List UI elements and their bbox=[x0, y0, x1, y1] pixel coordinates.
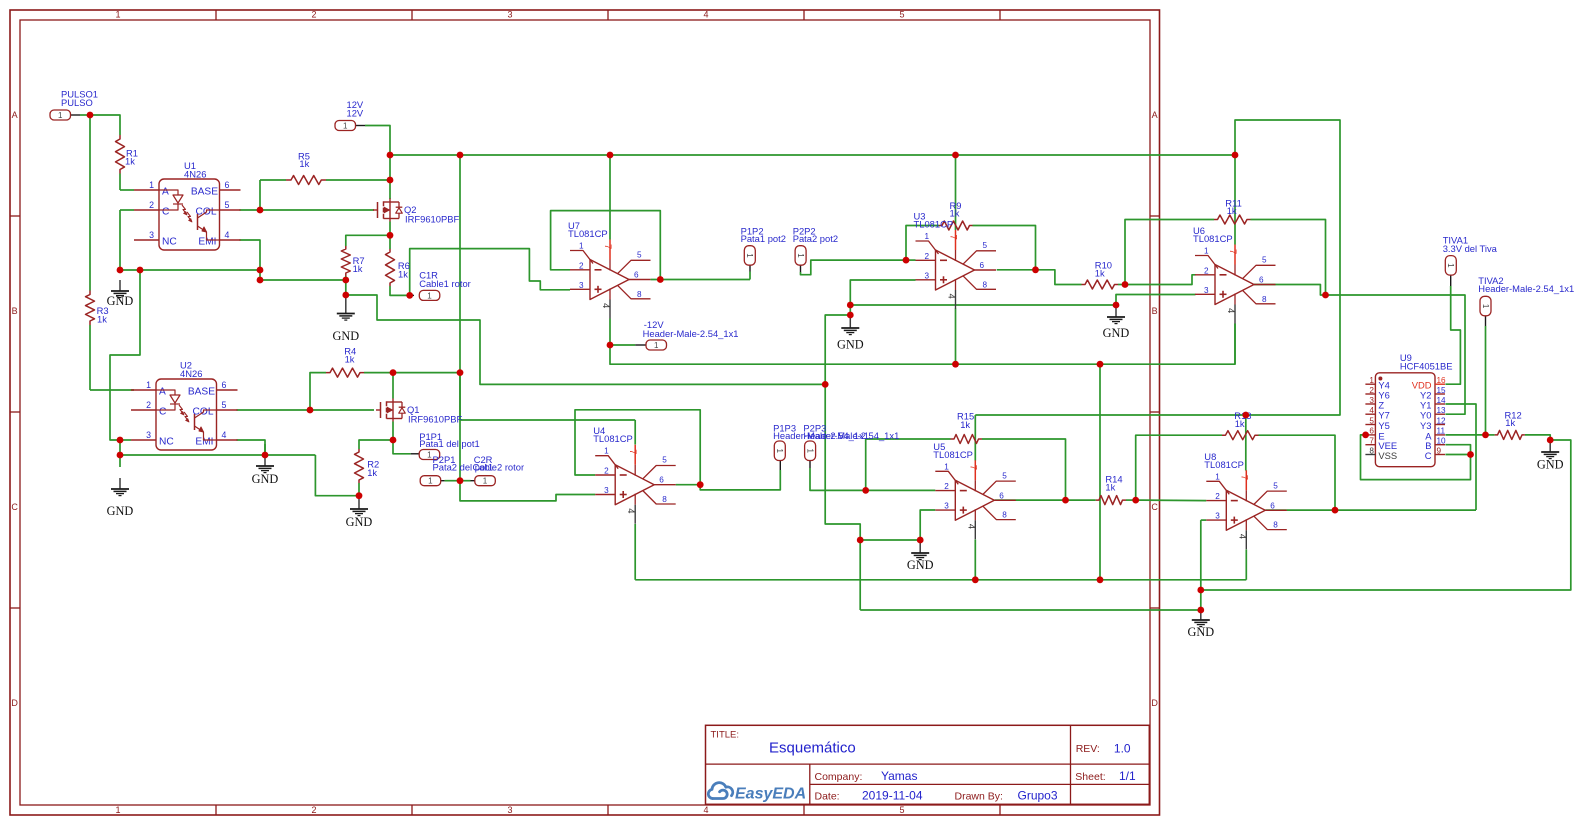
svg-text:7: 7 bbox=[602, 244, 613, 249]
svg-text:Cable2 rotor: Cable2 rotor bbox=[473, 462, 525, 473]
svg-text:TITLE:: TITLE: bbox=[711, 730, 740, 741]
svg-text:Cable1 rotor: Cable1 rotor bbox=[419, 278, 471, 289]
svg-text:8: 8 bbox=[1262, 295, 1267, 304]
svg-text:2: 2 bbox=[1215, 492, 1220, 501]
svg-text:5: 5 bbox=[1273, 481, 1278, 490]
svg-text:Grupo3: Grupo3 bbox=[1018, 788, 1058, 802]
svg-text:EasyEDA: EasyEDA bbox=[735, 786, 806, 803]
svg-text:1: 1 bbox=[775, 449, 784, 454]
svg-text:1/1: 1/1 bbox=[1119, 769, 1136, 783]
svg-text:Header-Male-2.54_1x1: Header-Male-2.54_1x1 bbox=[1478, 283, 1574, 294]
svg-text:5: 5 bbox=[899, 10, 904, 20]
svg-text:1: 1 bbox=[343, 122, 348, 131]
svg-text:11: 11 bbox=[1437, 427, 1446, 436]
svg-text:3: 3 bbox=[924, 271, 929, 280]
svg-text:4: 4 bbox=[225, 230, 230, 240]
svg-text:GND: GND bbox=[1103, 326, 1130, 340]
svg-text:2: 2 bbox=[311, 805, 316, 815]
svg-text:TL081CP: TL081CP bbox=[914, 219, 954, 230]
svg-text:1k: 1k bbox=[299, 158, 309, 169]
svg-text:3: 3 bbox=[944, 502, 949, 511]
svg-text:1k: 1k bbox=[950, 208, 960, 219]
svg-text:5: 5 bbox=[1262, 256, 1267, 265]
svg-text:1k: 1k bbox=[1105, 482, 1115, 493]
svg-text:7: 7 bbox=[1227, 249, 1238, 254]
svg-text:13: 13 bbox=[1437, 406, 1447, 415]
svg-text:Y5: Y5 bbox=[1378, 420, 1389, 431]
svg-text:3: 3 bbox=[579, 281, 584, 290]
svg-text:4: 4 bbox=[600, 303, 611, 308]
svg-text:5: 5 bbox=[637, 251, 642, 260]
svg-text:6: 6 bbox=[222, 380, 227, 390]
svg-text:4N26: 4N26 bbox=[184, 169, 206, 180]
svg-text:5: 5 bbox=[1002, 471, 1007, 480]
svg-text:3: 3 bbox=[1204, 286, 1209, 295]
svg-text:2: 2 bbox=[1369, 386, 1374, 395]
svg-text:A: A bbox=[1152, 110, 1158, 120]
svg-text:GND: GND bbox=[1187, 625, 1214, 639]
svg-text:7: 7 bbox=[1238, 475, 1249, 480]
svg-text:3.3V del Tiva: 3.3V del Tiva bbox=[1443, 243, 1498, 254]
svg-text:1k: 1k bbox=[367, 467, 377, 478]
svg-text:12: 12 bbox=[1437, 416, 1447, 425]
svg-text:16: 16 bbox=[1437, 376, 1447, 385]
svg-text:6: 6 bbox=[1270, 501, 1275, 510]
svg-text:4: 4 bbox=[1225, 308, 1236, 313]
svg-text:D: D bbox=[11, 698, 18, 708]
svg-text:1: 1 bbox=[805, 449, 814, 454]
svg-text:7: 7 bbox=[1369, 437, 1374, 446]
svg-text:1k: 1k bbox=[97, 314, 107, 325]
svg-text:Pata1 del pot1: Pata1 del pot1 bbox=[419, 438, 479, 449]
svg-text:1k: 1k bbox=[1227, 205, 1237, 216]
svg-text:IRF9610PBF: IRF9610PBF bbox=[405, 214, 459, 225]
svg-text:2: 2 bbox=[1204, 266, 1209, 275]
svg-text:1k: 1k bbox=[125, 156, 135, 167]
svg-text:3: 3 bbox=[146, 430, 151, 440]
svg-text:1k: 1k bbox=[398, 269, 408, 280]
svg-text:1: 1 bbox=[654, 341, 659, 350]
svg-text:Y3: Y3 bbox=[1420, 420, 1431, 431]
svg-text:C: C bbox=[162, 207, 169, 218]
svg-text:PULSO: PULSO bbox=[61, 97, 93, 108]
svg-text:1: 1 bbox=[579, 242, 584, 251]
svg-text:GND: GND bbox=[252, 472, 279, 486]
svg-text:GND: GND bbox=[907, 558, 934, 572]
svg-text:GND: GND bbox=[107, 504, 134, 518]
svg-text:1k: 1k bbox=[1505, 417, 1515, 428]
svg-text:B: B bbox=[12, 306, 18, 316]
svg-text:Header-Male-2.54_1x1: Header-Male-2.54_1x1 bbox=[803, 430, 899, 441]
svg-text:1: 1 bbox=[796, 253, 805, 258]
svg-text:GND: GND bbox=[1537, 458, 1564, 472]
svg-text:15: 15 bbox=[1437, 386, 1447, 395]
svg-text:2: 2 bbox=[944, 482, 949, 491]
svg-text:1: 1 bbox=[1204, 247, 1209, 256]
svg-text:D: D bbox=[1151, 698, 1158, 708]
svg-text:Company:: Company: bbox=[815, 771, 863, 783]
svg-text:Pata1 pot2: Pata1 pot2 bbox=[741, 233, 786, 244]
svg-text:2019-11-04: 2019-11-04 bbox=[862, 788, 923, 802]
svg-text:Header-Male-2.54_1x1: Header-Male-2.54_1x1 bbox=[643, 328, 739, 339]
svg-text:Sheet:: Sheet: bbox=[1075, 771, 1105, 783]
svg-text:1: 1 bbox=[924, 232, 929, 241]
svg-text:NC: NC bbox=[162, 237, 177, 248]
svg-text:TL081CP: TL081CP bbox=[1193, 233, 1233, 244]
svg-text:C: C bbox=[11, 502, 18, 512]
svg-text:A: A bbox=[159, 387, 166, 398]
svg-text:6: 6 bbox=[999, 491, 1004, 500]
svg-text:4: 4 bbox=[625, 508, 636, 513]
svg-text:6: 6 bbox=[980, 261, 985, 270]
svg-text:C: C bbox=[1151, 502, 1158, 512]
svg-text:C: C bbox=[1425, 450, 1432, 461]
svg-text:NC: NC bbox=[159, 437, 174, 448]
svg-text:1: 1 bbox=[149, 180, 154, 190]
svg-text:8: 8 bbox=[1369, 446, 1374, 455]
svg-text:EMI: EMI bbox=[195, 437, 213, 448]
svg-text:1: 1 bbox=[1369, 376, 1374, 385]
svg-text:VSS: VSS bbox=[1378, 450, 1397, 461]
svg-text:4: 4 bbox=[965, 524, 976, 529]
svg-text:2: 2 bbox=[146, 400, 151, 410]
svg-text:3: 3 bbox=[1215, 512, 1220, 521]
svg-text:1: 1 bbox=[1481, 304, 1490, 309]
svg-text:Pata2 pot2: Pata2 pot2 bbox=[793, 233, 838, 244]
svg-text:GND: GND bbox=[837, 338, 864, 352]
svg-text:1: 1 bbox=[146, 380, 151, 390]
svg-text:6: 6 bbox=[1259, 276, 1264, 285]
svg-text:1: 1 bbox=[427, 451, 432, 460]
svg-text:1k: 1k bbox=[960, 419, 970, 430]
svg-text:7: 7 bbox=[627, 449, 638, 454]
svg-text:5: 5 bbox=[222, 400, 227, 410]
svg-text:1: 1 bbox=[604, 447, 609, 456]
svg-text:8: 8 bbox=[662, 495, 667, 504]
svg-text:1: 1 bbox=[944, 462, 949, 471]
svg-text:2: 2 bbox=[604, 467, 609, 476]
svg-text:GND: GND bbox=[107, 294, 134, 308]
svg-text:4N26: 4N26 bbox=[180, 368, 202, 379]
svg-text:8: 8 bbox=[1002, 511, 1007, 520]
svg-text:GND: GND bbox=[346, 515, 373, 529]
svg-text:12V: 12V bbox=[347, 108, 364, 119]
svg-text:TL081CP: TL081CP bbox=[568, 228, 608, 239]
svg-text:8: 8 bbox=[1273, 521, 1278, 530]
svg-text:1.0: 1.0 bbox=[1114, 742, 1131, 756]
svg-text:1: 1 bbox=[428, 477, 433, 486]
svg-text:4: 4 bbox=[1236, 534, 1247, 539]
svg-text:8: 8 bbox=[983, 280, 988, 289]
svg-text:9: 9 bbox=[1437, 446, 1442, 455]
svg-text:1: 1 bbox=[427, 291, 432, 300]
svg-text:1: 1 bbox=[58, 111, 63, 120]
svg-text:2: 2 bbox=[149, 200, 154, 210]
svg-text:C: C bbox=[159, 407, 166, 418]
svg-text:A: A bbox=[162, 187, 169, 198]
svg-text:2: 2 bbox=[311, 10, 316, 20]
svg-text:TL081CP: TL081CP bbox=[593, 433, 633, 444]
svg-text:3: 3 bbox=[1369, 396, 1374, 405]
svg-text:1: 1 bbox=[115, 10, 120, 20]
svg-text:1: 1 bbox=[1215, 472, 1220, 481]
svg-text:5: 5 bbox=[899, 805, 904, 815]
svg-text:Date:: Date: bbox=[815, 790, 840, 802]
svg-text:1: 1 bbox=[745, 253, 754, 258]
svg-text:4: 4 bbox=[703, 805, 708, 815]
svg-text:B: B bbox=[1152, 306, 1158, 316]
svg-text:1: 1 bbox=[115, 805, 120, 815]
svg-text:6: 6 bbox=[225, 180, 230, 190]
svg-text:REV:: REV: bbox=[1076, 743, 1100, 755]
svg-text:1k: 1k bbox=[345, 354, 355, 365]
svg-text:Drawn By:: Drawn By: bbox=[955, 790, 1003, 802]
svg-text:5: 5 bbox=[1369, 416, 1374, 425]
svg-text:HCF4051BE: HCF4051BE bbox=[1400, 361, 1453, 372]
svg-text:4: 4 bbox=[946, 294, 957, 299]
svg-text:3: 3 bbox=[507, 10, 512, 20]
svg-text:4: 4 bbox=[222, 430, 227, 440]
svg-text:10: 10 bbox=[1437, 437, 1447, 446]
svg-text:1k: 1k bbox=[353, 263, 363, 274]
svg-text:Yamas: Yamas bbox=[881, 769, 917, 783]
svg-text:3: 3 bbox=[507, 805, 512, 815]
svg-text:TL081CP: TL081CP bbox=[1204, 459, 1244, 470]
svg-text:7: 7 bbox=[967, 465, 978, 470]
svg-text:6: 6 bbox=[659, 476, 664, 485]
svg-text:GND: GND bbox=[332, 329, 359, 343]
svg-text:3: 3 bbox=[604, 486, 609, 495]
svg-text:Esquemático: Esquemático bbox=[769, 740, 856, 757]
svg-text:4: 4 bbox=[703, 10, 708, 20]
svg-text:TL081CP: TL081CP bbox=[933, 449, 973, 460]
svg-text:1: 1 bbox=[483, 477, 488, 486]
svg-text:7: 7 bbox=[948, 235, 959, 240]
svg-text:5: 5 bbox=[225, 200, 230, 210]
svg-text:BASE: BASE bbox=[191, 187, 218, 198]
svg-text:BASE: BASE bbox=[188, 387, 215, 398]
svg-text:14: 14 bbox=[1437, 396, 1447, 405]
svg-text:5: 5 bbox=[983, 241, 988, 250]
svg-text:1: 1 bbox=[1446, 263, 1455, 268]
svg-text:3: 3 bbox=[149, 230, 154, 240]
svg-text:EMI: EMI bbox=[198, 237, 216, 248]
svg-text:6: 6 bbox=[634, 271, 639, 280]
svg-text:1k: 1k bbox=[1095, 268, 1105, 279]
svg-text:8: 8 bbox=[637, 290, 642, 299]
svg-text:IRF9610PBF: IRF9610PBF bbox=[408, 414, 462, 425]
svg-text:6: 6 bbox=[1369, 427, 1374, 436]
svg-text:2: 2 bbox=[579, 261, 584, 270]
svg-text:5: 5 bbox=[662, 456, 667, 465]
svg-text:1k: 1k bbox=[1235, 418, 1245, 429]
svg-text:2: 2 bbox=[924, 252, 929, 261]
svg-text:4: 4 bbox=[1369, 406, 1374, 415]
svg-text:A: A bbox=[12, 110, 18, 120]
